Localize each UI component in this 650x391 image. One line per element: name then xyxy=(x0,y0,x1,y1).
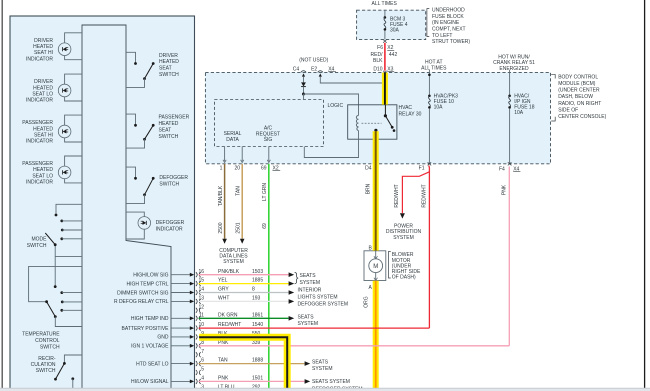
svg-text:INDICATOR: INDICATOR xyxy=(26,56,53,62)
label body control module xyxy=(551,74,606,121)
svg-text:PASSENGER: PASSENGER xyxy=(22,161,53,167)
wire panel signal HIGH TEMP CTRL (pin 15 stub) xyxy=(126,281,194,287)
wire logic output pin 20 xyxy=(234,147,243,172)
svg-text:YEL: YEL xyxy=(218,278,228,284)
wire panel signal HIGH TEMP IND (pin 11 stub) xyxy=(131,316,194,322)
svg-text:HEATED: HEATED xyxy=(159,121,179,127)
svg-text:LIGHTS SYSTEM: LIGHTS SYSTEM xyxy=(298,295,338,301)
svg-text:HIGH TEMP CTRL: HIGH TEMP CTRL xyxy=(126,281,168,287)
svg-text:1888: 1888 xyxy=(252,358,263,364)
label seats system (pin 4) xyxy=(312,379,350,385)
mode switch SW4 xyxy=(27,204,82,288)
connector pin F1 xyxy=(419,162,432,171)
fuse HVAC/ I/P IGN FUSE 18 10A xyxy=(508,70,534,164)
connector pin 9 xyxy=(196,331,204,339)
connector pin 5 xyxy=(196,367,204,375)
svg-text:TAN: TAN xyxy=(218,358,228,364)
svg-text:HVAC: HVAC xyxy=(399,105,413,111)
svg-text:1861: 1861 xyxy=(252,312,263,318)
defogger switch SW3 xyxy=(126,167,188,204)
svg-text:RELAY 30: RELAY 30 xyxy=(399,112,422,118)
svg-text:RECIR-: RECIR- xyxy=(38,356,56,362)
wire logic output pin 69 xyxy=(261,147,270,172)
svg-text:DEFOGGER: DEFOGGER xyxy=(159,175,188,181)
svg-text:TEMPERATURE: TEMPERATURE xyxy=(22,332,60,338)
svg-text:BODY CONTROL: BODY CONTROL xyxy=(558,75,598,81)
svg-text:RED/WHT: RED/WHT xyxy=(421,184,427,207)
label computer data lines system xyxy=(219,248,248,265)
svg-text:INDICATOR: INDICATOR xyxy=(26,180,53,186)
connector pin 8 xyxy=(196,340,204,348)
label wire TAN 1888 (pin 6) xyxy=(218,358,263,364)
wire DK GRN 1861 (pin 11) xyxy=(199,317,289,319)
wire panel signal GND (pin 9 stub) xyxy=(157,335,194,341)
fuse HVAC/PK3 FUSE 10 10A xyxy=(428,70,458,164)
svg-text:4: 4 xyxy=(201,376,204,382)
connector pin 3 xyxy=(196,384,204,391)
wire logic output pin 1 xyxy=(220,147,227,172)
svg-text:10A: 10A xyxy=(514,110,524,116)
svg-text:PASSENGER: PASSENGER xyxy=(22,120,53,126)
svg-text:HEATED: HEATED xyxy=(159,59,179,65)
svg-text:5: 5 xyxy=(201,367,204,373)
relay switch contacts xyxy=(374,105,395,132)
connector pin C4 xyxy=(293,66,306,72)
svg-text:7: 7 xyxy=(201,349,204,355)
label wire WHT 193 (pin 13) xyxy=(218,296,261,302)
svg-text:HTD SEAT LO: HTD SEAT LO xyxy=(136,361,168,367)
recirculation switch SW6 xyxy=(31,355,82,389)
wire RED/BLK 442 xyxy=(371,43,398,71)
label wire PNK/BLK 1503 (pin 16) xyxy=(218,269,263,275)
LED indicator D1 (DRIVER SEAT HI) xyxy=(26,33,82,63)
wire ORG (blower ground side, highlighted) xyxy=(373,281,379,389)
svg-text:SWITCH: SWITCH xyxy=(159,182,179,188)
connector pin 14 xyxy=(196,287,204,295)
svg-text:DIMMER SWITCH SIG: DIMMER SWITCH SIG xyxy=(117,290,168,296)
label ORG xyxy=(364,296,370,308)
svg-text:CULATION: CULATION xyxy=(31,362,56,368)
svg-text:2500: 2500 xyxy=(218,222,224,233)
svg-text:193: 193 xyxy=(252,296,261,302)
connector pin 10 xyxy=(196,322,204,330)
svg-text:11: 11 xyxy=(199,312,204,318)
LED indicator D4 (PASSENGER SEAT LO) xyxy=(22,156,82,186)
svg-text:D4: D4 xyxy=(365,165,372,171)
connector pin 7 xyxy=(196,349,204,357)
label wire PNK 1501 (pin 4) xyxy=(218,376,263,382)
svg-text:BRN: BRN xyxy=(365,183,371,194)
svg-text:F6: F6 xyxy=(377,45,383,51)
svg-text:PASSENGER: PASSENGER xyxy=(159,115,190,121)
svg-text:HEATED: HEATED xyxy=(33,167,53,173)
wire LT BLU 292 (pin 3) xyxy=(199,389,305,391)
wire C4 junction to logic box xyxy=(303,94,305,100)
svg-text:10A: 10A xyxy=(434,105,444,111)
wire RED/WHT 1540 (pin 10 to BCM F1) xyxy=(199,327,430,329)
HVAC control head inner box xyxy=(82,25,171,391)
connector pin D4 xyxy=(365,162,377,171)
svg-text:DRIVER: DRIVER xyxy=(34,79,53,85)
svg-text:SYSTEM: SYSTEM xyxy=(223,259,244,265)
wire GRY 8 (pin 14) xyxy=(199,292,289,294)
svg-text:F4: F4 xyxy=(499,167,505,173)
label not used xyxy=(299,58,328,64)
svg-text:DRIVER: DRIVER xyxy=(34,38,53,44)
svg-text:SYSTEM: SYSTEM xyxy=(298,321,319,327)
label underhood fuse block location xyxy=(427,8,470,46)
svg-text:D10: D10 xyxy=(373,66,382,72)
svg-text:14: 14 xyxy=(198,287,204,293)
svg-text:SEATS: SEATS xyxy=(300,273,317,279)
node coil feed junction xyxy=(302,93,305,96)
wire E2 pin to main feed xyxy=(319,73,383,83)
label wire DK GRN 1861 (pin 11) xyxy=(218,312,263,318)
svg-text:HIGH/LOW SIG: HIGH/LOW SIG xyxy=(133,273,168,279)
connector pin 6 xyxy=(196,358,204,366)
svg-text:R DEFOG RELAY CTRL: R DEFOG RELAY CTRL xyxy=(114,299,169,305)
label hot w/ run crank relay 51 energized xyxy=(493,55,535,72)
connector pin 12 xyxy=(196,304,204,312)
svg-text:2501: 2501 xyxy=(236,222,242,233)
svg-text:SIDE OF: SIDE OF xyxy=(558,107,578,113)
svg-text:FUSE BLOCK: FUSE BLOCK xyxy=(432,14,464,20)
label seats system (pin 6) xyxy=(312,359,333,372)
svg-text:LOGIC: LOGIC xyxy=(328,103,344,109)
connector pin 13 xyxy=(196,296,204,304)
label wire PNK 339 (pin 8) xyxy=(218,340,261,346)
bottom window bar xyxy=(0,388,650,391)
svg-text:INDICATOR: INDICATOR xyxy=(26,139,53,145)
label wire RED/WHT 1540 (pin 10) xyxy=(218,322,263,328)
svg-text:SWITCH: SWITCH xyxy=(36,368,56,374)
svg-text:SYSTEM: SYSTEM xyxy=(300,280,321,286)
label wire BLK 550 (pin 9) xyxy=(218,331,261,337)
connector pin E2 xyxy=(311,66,323,72)
svg-text:TAN/BLK: TAN/BLK xyxy=(218,185,224,206)
relay HVAC RELAY 30 box xyxy=(348,105,397,139)
svg-text:INDICATOR: INDICATOR xyxy=(26,98,53,104)
svg-text:DRIVER: DRIVER xyxy=(159,53,178,59)
wire panel signal IGN 1 VOLTAGE (pin 8 stub) xyxy=(131,344,194,350)
svg-text:69: 69 xyxy=(261,165,267,171)
LED indicator D5 (defogger indicator) xyxy=(126,212,185,239)
svg-text:RADIO, ON RIGHT: RADIO, ON RIGHT xyxy=(558,101,601,107)
wire arrow to power distribution system xyxy=(400,213,405,218)
svg-text:69: 69 xyxy=(262,223,268,229)
connector pin F4 X4 xyxy=(499,162,520,172)
label RED/WHT (main) xyxy=(421,184,427,207)
wire RED/BLK feed (highlighted) xyxy=(382,73,388,105)
svg-text:F1: F1 xyxy=(419,166,425,172)
svg-text:BATTERY POSITIVE: BATTERY POSITIVE xyxy=(122,326,170,332)
wire BRN 52 (relay to blower, highlighted) xyxy=(373,131,379,250)
label power distribution system xyxy=(386,224,422,241)
wire PNK/BLK 1503 (pin 16) xyxy=(199,274,289,276)
svg-text:1: 1 xyxy=(220,165,223,171)
wire BLK 550 (pin 9, highlighted ground) xyxy=(199,337,287,388)
wire panel signal BATTERY POSITIVE (pin 10 stub) xyxy=(122,326,195,332)
wire WHT 193 (pin 13) xyxy=(199,300,289,302)
temperature control switch SW5 xyxy=(22,266,82,350)
svg-text:PNK/BLK: PNK/BLK xyxy=(218,269,240,275)
svg-text:1503: 1503 xyxy=(252,269,263,275)
label connector X2 xyxy=(273,165,281,171)
svg-text:6: 6 xyxy=(201,358,204,364)
label seats system (pin 11) xyxy=(298,315,319,328)
label serial data xyxy=(224,131,242,143)
svg-text:SWITCH: SWITCH xyxy=(159,72,179,78)
svg-text:MODE: MODE xyxy=(32,237,48,243)
svg-text:SEATS SYSTEM: SEATS SYSTEM xyxy=(312,379,350,385)
svg-text:UNDERHOOD: UNDERHOOD xyxy=(432,8,465,14)
svg-text:SEAT HI: SEAT HI xyxy=(34,133,53,139)
fuse BCM 3 FUSE 4 30A xyxy=(384,10,408,39)
svg-text:1540: 1540 xyxy=(252,322,263,328)
label blower motor location xyxy=(389,252,421,281)
svg-text:SYSTEM: SYSTEM xyxy=(312,366,333,372)
label defogger system (pin 13) xyxy=(298,302,349,308)
svg-text:GRY: GRY xyxy=(218,287,229,293)
svg-text:WHT: WHT xyxy=(218,296,229,302)
label wire YEL 1885 (pin 15) xyxy=(218,278,263,284)
label LOGIC xyxy=(328,103,344,109)
svg-text:CENTER CONSOLE): CENTER CONSOLE) xyxy=(558,114,606,120)
wire panel signal R DEFOG RELAY CTRL (pin 13 stub) xyxy=(114,299,194,305)
svg-text:RED/WHT: RED/WHT xyxy=(394,184,400,207)
svg-text:ALL TIMES: ALL TIMES xyxy=(421,65,447,71)
svg-text:DK GRN: DK GRN xyxy=(218,312,238,318)
label motor terminal A xyxy=(368,285,372,291)
svg-text:HIGH TEMP IND: HIGH TEMP IND xyxy=(131,316,169,322)
svg-text:10: 10 xyxy=(198,322,204,328)
label motor terminal B xyxy=(368,245,372,251)
svg-text:(IN ENGINE: (IN ENGINE xyxy=(432,20,460,26)
svg-text:LT GRN: LT GRN xyxy=(262,183,268,201)
svg-text:DEFOGGER: DEFOGGER xyxy=(156,220,185,226)
logic block (dashed) xyxy=(215,100,324,147)
label connector X4 (top) xyxy=(328,66,336,72)
passenger heated seat switch SW2 xyxy=(126,114,190,148)
svg-text:HEATED: HEATED xyxy=(33,126,53,132)
svg-text:20: 20 xyxy=(234,165,240,171)
svg-text:SEAT: SEAT xyxy=(159,127,172,133)
LED indicator D3 (PASSENGER SEAT HI) xyxy=(22,115,82,145)
diode CR1 on C4 line xyxy=(301,73,306,94)
connector pin F6 X2 xyxy=(377,40,394,52)
svg-text:30A: 30A xyxy=(390,28,400,34)
label PNK (F4 wire) xyxy=(501,184,507,195)
wire YEL 1885 (pin 15) xyxy=(199,283,289,285)
svg-text:COMPT, NEXT: COMPT, NEXT xyxy=(432,27,466,33)
label wire GRY 8 (pin 14) xyxy=(218,287,255,293)
label hot at all times xyxy=(421,59,447,71)
svg-text:1885: 1885 xyxy=(252,278,263,284)
svg-text:PNK: PNK xyxy=(501,184,507,195)
connector pin 16 xyxy=(196,269,204,277)
svg-text:(NOT USED): (NOT USED) xyxy=(299,58,328,64)
svg-text:TO LEFT: TO LEFT xyxy=(432,33,452,39)
svg-text:SYSTEM: SYSTEM xyxy=(393,235,414,241)
connector pin 15 xyxy=(196,278,204,286)
blower motor M1 xyxy=(364,251,386,281)
svg-text:SEAT: SEAT xyxy=(159,66,172,72)
svg-text:RED/WHT: RED/WHT xyxy=(218,322,241,328)
svg-text:DATA: DATA xyxy=(226,137,239,143)
label RED/WHT (branch) xyxy=(394,184,400,207)
connector pin 4 xyxy=(196,376,204,384)
svg-text:SWITCH: SWITCH xyxy=(40,345,60,351)
underhood fuse block (dashed box) xyxy=(357,10,426,39)
svg-text:GND: GND xyxy=(157,335,169,341)
label interior lights system (pin 14) xyxy=(298,287,338,300)
wire PNK 339 (pin 8 to BCM F4) xyxy=(199,345,510,347)
svg-text:HI/LOW SIGNAL: HI/LOW SIGNAL xyxy=(131,379,169,385)
svg-text:ORG: ORG xyxy=(364,296,370,308)
label BRN xyxy=(365,183,371,194)
svg-text:1501: 1501 xyxy=(252,376,263,382)
relay coil xyxy=(356,116,358,131)
label defogger system (pin 3) xyxy=(312,387,363,391)
svg-text:13: 13 xyxy=(198,296,204,302)
svg-text:8: 8 xyxy=(252,287,255,293)
wire TAN/BLK 2500 (serial data) xyxy=(218,164,227,244)
HVAC control panel (left module box) xyxy=(10,16,195,391)
svg-text:ENERGIZED: ENERGIZED xyxy=(499,66,529,72)
wire LT GRN 69 (a/c request) xyxy=(262,164,269,388)
svg-text:OF DASH): OF DASH) xyxy=(392,274,416,280)
svg-text:15: 15 xyxy=(198,278,204,284)
svg-text:SEAT HI: SEAT HI xyxy=(34,50,53,56)
svg-text:DEFOGGER SYSTEM: DEFOGGER SYSTEM xyxy=(298,302,349,308)
svg-text:M: M xyxy=(373,264,378,270)
svg-text:INTERIOR: INTERIOR xyxy=(298,287,322,293)
wire RED/WHT branch to power distribution xyxy=(402,172,429,213)
svg-text:SEATS: SEATS xyxy=(298,315,315,321)
svg-text:(UNDER CENTER: (UNDER CENTER xyxy=(558,88,600,94)
wire panel signal HI/LOW SIGNAL (pin 4 stub) xyxy=(131,379,194,385)
wire panel signal DIMMER SWITCH SIG (pin 14 stub) xyxy=(117,290,194,296)
svg-text:MODULE (BCM): MODULE (BCM) xyxy=(558,81,596,87)
svg-text:SEAT LO: SEAT LO xyxy=(32,92,53,98)
svg-text:C4: C4 xyxy=(293,66,300,72)
svg-text:IGN 1 VOLTAGE: IGN 1 VOLTAGE xyxy=(131,344,169,350)
driver heated seat switch SW1 xyxy=(126,52,179,87)
svg-text:12: 12 xyxy=(198,304,204,310)
wire TAN 2501 (serial data) xyxy=(236,164,245,244)
label wire LT BLU 292 (pin 3) xyxy=(218,384,261,390)
svg-text:SIG: SIG xyxy=(264,137,273,143)
svg-text:HEATED: HEATED xyxy=(33,85,53,91)
svg-text:BLK: BLK xyxy=(373,58,383,64)
svg-text:ALL TIMES: ALL TIMES xyxy=(372,1,398,7)
wire TAN 1888 (pin 6) xyxy=(199,363,305,365)
wire panel signal HTD SEAT LO (pin 6 stub) xyxy=(136,361,194,367)
label seats system (pins 16/15) xyxy=(295,272,320,286)
body control module BCM (dashed box) xyxy=(205,72,550,163)
wire panel signal HIGH/LOW SIG (pin 16 stub) xyxy=(133,273,194,279)
connector pin 11 xyxy=(196,312,204,320)
svg-text:CONTROL: CONTROL xyxy=(35,338,60,344)
LED indicator D2 (DRIVER SEAT LO) xyxy=(26,74,82,104)
svg-text:SEATS: SEATS xyxy=(312,359,329,365)
label HVAC RELAY 30 xyxy=(399,105,422,118)
relay link dashes xyxy=(362,122,382,124)
label all times (top) xyxy=(372,1,398,7)
svg-text:TAN: TAN xyxy=(236,186,242,196)
svg-text:INDICATOR: INDICATOR xyxy=(156,226,183,232)
wire coil feed (junction to relay coil) xyxy=(304,94,359,116)
wire left window border xyxy=(1,0,3,389)
svg-text:E2: E2 xyxy=(311,66,317,72)
wire PNK 1501 (pin 4) xyxy=(199,380,305,382)
wire coil return loop xyxy=(304,131,358,158)
svg-text:SEAT LO: SEAT LO xyxy=(32,173,53,179)
svg-text:HEATED: HEATED xyxy=(33,44,53,50)
svg-text:DASH, BELOW: DASH, BELOW xyxy=(558,94,593,100)
label a/c request sig xyxy=(256,126,280,144)
svg-text:442: 442 xyxy=(389,52,398,58)
svg-text:STRUT TOWER): STRUT TOWER) xyxy=(432,39,470,45)
svg-text:PNK: PNK xyxy=(218,376,229,382)
svg-text:SWITCH: SWITCH xyxy=(159,134,179,140)
svg-text:16: 16 xyxy=(198,269,204,275)
connector pin D10 X3 xyxy=(373,66,394,74)
svg-text:SWITCH: SWITCH xyxy=(27,243,47,249)
wire right page border xyxy=(644,0,646,388)
